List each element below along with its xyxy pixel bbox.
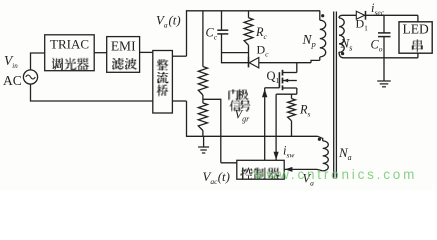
wire bus down: [186, 101, 188, 137]
capacitor Co: [383, 15, 385, 33]
wire rectifier + output: [172, 55, 186, 57]
transistor Q1 gate bar: [278, 72, 280, 88]
wire Vac to controller: [221, 162, 237, 164]
ground secondary: [383, 58, 385, 81]
dot Ns polarity: [341, 52, 344, 55]
transistor Q1 drain: [283, 72, 297, 74]
capacitor Cc: [221, 11, 223, 30]
transistor Q1 source: [283, 87, 297, 89]
wire gate lead: [265, 87, 280, 89]
diode D1: [356, 11, 364, 19]
wire Na feedback arrow: [284, 168, 317, 170]
winding Na: [318, 136, 323, 141]
diode Dc: [222, 62, 312, 64]
dot Np polarity: [321, 14, 324, 17]
wire bus up: [186, 10, 188, 56]
wire TRIAC to EMI: [94, 52, 107, 54]
winding Np: [319, 11, 321, 21]
svg-text:EMI: EMI: [111, 38, 136, 53]
svg-text:(t): (t): [169, 14, 181, 28]
ground primary: [203, 136, 205, 147]
dot Na polarity: [318, 138, 321, 141]
text 整流桥: [156, 59, 168, 70]
svg-text:AC: AC: [3, 73, 22, 88]
transistor Q1 body arrow: [283, 80, 297, 82]
wire AC bottom to rectifier: [31, 84, 153, 101]
svg-text:www.cntronics.com: www.cntronics.com: [253, 167, 417, 182]
wire secondary bottom rail: [344, 57, 418, 59]
winding Ns: [339, 15, 343, 18]
resistor Rs: [291, 94, 293, 98]
transistor Q1 channel: [282, 70, 284, 76]
wire top rail: [187, 10, 320, 12]
wire secondary top rail: [343, 14, 418, 16]
resistor divider upper: [202, 11, 204, 67]
wire EMI to rectifier: [140, 51, 153, 53]
wire Np bottom jog: [311, 60, 320, 62]
wire isw sense: [275, 94, 277, 160]
rectifier bridge box: [153, 51, 173, 114]
text 串: [412, 39, 423, 52]
resistor divider lower: [202, 95, 204, 103]
svg-text:TRIAC: TRIAC: [50, 37, 89, 52]
svg-text:LED: LED: [402, 22, 428, 37]
controller box: [237, 160, 284, 179]
wire AC top to TRIAC: [31, 53, 45, 70]
wire clamp node: [222, 52, 249, 54]
core: [333, 12, 335, 179]
wire gate drive: [264, 88, 266, 160]
text 调光器: [52, 58, 63, 70]
text 控制器: [240, 168, 253, 180]
resistor Rc: [248, 11, 250, 18]
svg-text:(t): (t): [218, 170, 230, 184]
wire bottom rail: [187, 135, 318, 137]
TRIAC dimmer box: [45, 35, 94, 71]
AC source V_in: [23, 70, 37, 84]
text 门极: [228, 89, 238, 100]
LED string box: [399, 22, 432, 53]
EMI filter box: [107, 37, 140, 73]
text 信号: [229, 100, 241, 112]
wire divider tap: [203, 99, 221, 163]
text 滤波: [112, 58, 124, 70]
wire rectifier - output: [172, 100, 186, 102]
